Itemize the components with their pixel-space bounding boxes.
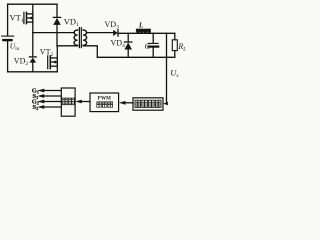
- diode VD3 cathode bar: [117, 30, 119, 36]
- wire PWM to drive: [81, 101, 90, 103]
- diode VD2 wire from node A: [32, 33, 34, 57]
- arrowhead into feedback box: [163, 102, 168, 106]
- svg-text:PWM: PWM: [98, 96, 111, 102]
- svg-text:VD2: VD2: [14, 57, 29, 68]
- diode VD3 triangle: [113, 30, 117, 36]
- wire VT2 drain to node B: [56, 46, 58, 58]
- arrowhead into drive box: [75, 100, 82, 104]
- resistor RL top wire: [174, 33, 176, 40]
- wire bottom rail: [8, 71, 58, 73]
- glyph 器: [108, 102, 113, 107]
- svg-text:VT2: VT2: [40, 48, 54, 59]
- transistor VT1 drain stub: [27, 13, 33, 15]
- svg-text:VD4: VD4: [111, 38, 126, 49]
- diode VD1 wire from top rail: [56, 4, 58, 17]
- PWM modulator box: [90, 93, 119, 112]
- diode VD1 triangle: [53, 18, 61, 25]
- voltage feedback box 电压反馈: [133, 98, 163, 110]
- node A wire to primary top: [33, 32, 75, 34]
- battery Uin plate positive: [2, 35, 14, 37]
- gate line G2: [44, 101, 62, 103]
- inductor L scallops: [136, 31, 151, 33]
- wire VT1 source to node A: [32, 22, 34, 32]
- capacitor C bottom wire: [152, 48, 154, 58]
- diode VD2 triangle: [30, 58, 37, 63]
- transistor VT2 gate bar: [47, 56, 49, 69]
- diode VD4 wire from top: [127, 33, 129, 42]
- arrowhead into PWM box: [119, 101, 126, 105]
- transformer T core line left: [78, 28, 80, 48]
- gate line G1: [44, 90, 62, 92]
- wire VT2 source to bottom rail: [56, 66, 58, 72]
- arrowhead G2: [37, 100, 44, 104]
- resistor RL box: [172, 40, 177, 51]
- transistor VT2 drain stub: [50, 57, 57, 59]
- transistor VT1 arrow: [28, 17, 32, 20]
- glyph 动: [69, 98, 75, 105]
- resistor RL bottom wire: [174, 51, 176, 58]
- glyph 调: [97, 102, 102, 107]
- diode VD4 triangle: [124, 43, 132, 50]
- arrowhead G1: [37, 89, 44, 93]
- battery Uin plate negative: [3, 39, 11, 41]
- wire VD3 cathode to load: [118, 32, 175, 34]
- wire secondary top terminal: [86, 32, 113, 34]
- arrowhead S2: [37, 105, 44, 109]
- transformer T secondary winding: [83, 30, 87, 45]
- transistor VT2 arrow: [52, 61, 56, 64]
- transformer T primary winding: [74, 30, 78, 45]
- pseudo glyphs 调制器 in PWM box: [97, 102, 113, 107]
- svg-text:VT1: VT1: [10, 12, 24, 24]
- capacitor C top wire: [152, 33, 154, 43]
- transistor VT1 right bar: [32, 14, 34, 22]
- diode VD4 cathode bar: [125, 41, 132, 43]
- wire secondary bottom terminal: [83, 46, 97, 58]
- svg-text:VD3: VD3: [105, 20, 120, 31]
- svg-text:Uin: Uin: [10, 42, 20, 53]
- wire VD2 anode to bottom rail: [32, 62, 34, 71]
- transistor VT2 channel bar: [49, 56, 51, 69]
- transistor VT1 channel bar: [26, 12, 28, 23]
- wire VD1 anode to node B: [56, 25, 58, 46]
- svg-text:C: C: [145, 42, 151, 51]
- transistor VT2 source stub: [50, 65, 57, 67]
- capacitor C top plate: [148, 42, 158, 44]
- wire secondary bottom rail: [97, 56, 175, 58]
- transistor VT2 right bar: [56, 58, 58, 66]
- node B wire to primary bottom: [57, 45, 78, 47]
- wire left rail lower: [7, 41, 9, 72]
- svg-text:RL: RL: [177, 42, 186, 53]
- svg-text:L: L: [138, 21, 144, 29]
- wire VD4 anode to bottom rail: [127, 49, 129, 57]
- transformer T core line right: [80, 28, 82, 48]
- diode VD1 cathode bar: [53, 16, 60, 18]
- transistor VT1 body stub: [28, 17, 33, 19]
- wire feedback tap vertical: [166, 33, 168, 103]
- diode VD2 cathode bar: [29, 56, 36, 58]
- transistor VT2 body stub: [51, 61, 57, 63]
- glyph 反: [149, 100, 155, 107]
- wire feedback to PWM: [125, 102, 134, 104]
- pseudo glyphs 电压反馈 in feedback box: [135, 100, 161, 107]
- svg-text:VD1: VD1: [64, 16, 79, 28]
- gate line S2: [44, 106, 62, 108]
- wire left rail upper: [7, 4, 9, 35]
- glyph 压: [142, 100, 148, 107]
- transistor VT1 gate bar: [23, 12, 25, 23]
- pseudo glyphs 驱动 in drive box: [62, 98, 74, 105]
- glyph 馈: [155, 100, 161, 107]
- glyph 驱: [62, 98, 68, 105]
- glyph 制: [102, 102, 107, 107]
- drive box 驱动: [61, 88, 75, 116]
- arrowhead S1: [37, 94, 44, 98]
- svg-text:Us: Us: [170, 67, 178, 79]
- glyph 电: [135, 100, 141, 107]
- gate line S1: [44, 95, 62, 97]
- inductor L body: [136, 29, 151, 32]
- wire VT1 drain: [32, 4, 34, 14]
- transistor VT1 source stub: [27, 21, 33, 23]
- wire top rail: [8, 3, 57, 5]
- capacitor C bottom plate: [148, 45, 158, 47]
- svg-text:S2: S2: [33, 104, 39, 111]
